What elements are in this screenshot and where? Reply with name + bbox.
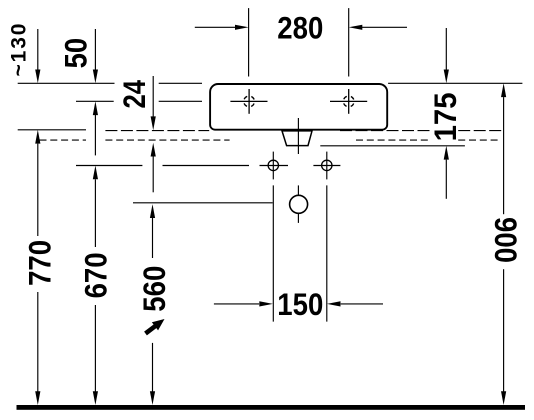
lower hidden edge dashed line, right segment — [356, 139, 431, 141]
arrowhead 150 left — [259, 301, 273, 306]
175 level line (siphon connection) — [320, 145, 465, 147]
left faucet hole crosshair — [230, 89, 267, 114]
dimension 900 line, lower segment — [503, 269, 505, 391]
dimension 150 left tail line — [214, 303, 259, 305]
dimension 670 line, lower segment — [94, 305, 96, 392]
arrowhead 50 down — [93, 70, 98, 84]
vertical center line through drain, upper segment — [297, 118, 299, 154]
arrowhead 560 up — [150, 204, 155, 218]
arrowhead 150 right — [327, 301, 341, 306]
rim level reference line, left segment 2 — [159, 82, 202, 84]
svg-text:24: 24 — [116, 80, 152, 109]
dimension 24 lower extension line — [152, 156, 154, 192]
floor line — [17, 405, 526, 410]
drain circle — [290, 195, 308, 213]
670 level line through left fixing hole — [260, 165, 289, 167]
arrowhead ~130 down — [35, 70, 40, 84]
right faucet hole crosshair — [330, 89, 367, 114]
svg-text:50: 50 — [58, 38, 94, 69]
670 level line through right fixing hole — [313, 165, 340, 167]
arrowhead 900 down — [501, 391, 506, 405]
hidden edge dashed line (basin underside), left segment — [105, 130, 209, 132]
svg-text:280: 280 — [277, 9, 323, 45]
arrowhead 175 down — [444, 70, 449, 84]
dimension 770 line, upper segment — [37, 144, 39, 236]
washbasin body outline — [210, 84, 387, 130]
svg-text:560: 560 — [136, 266, 172, 312]
560 outlet level line — [133, 202, 273, 204]
dimension 560 line, lower segment — [152, 343, 154, 392]
outlet direction arrow (north-east) — [144, 319, 164, 335]
arrowhead 280 right — [349, 25, 363, 30]
left fixing hole — [268, 152, 278, 322]
lower hidden edge dashed line, far right segment — [458, 139, 501, 141]
dimension 670 line, upper segment — [94, 179, 96, 247]
arrowhead 175 up — [444, 146, 449, 160]
rim level reference line, left segment 1 — [18, 82, 115, 84]
dimension 900 line, upper segment — [503, 97, 505, 214]
svg-text:770: 770 — [21, 240, 57, 286]
dimension 175 upper extension line — [445, 28, 447, 70]
arrowhead 770 up — [35, 130, 40, 144]
arrowhead 24 down — [151, 116, 156, 130]
dimension 280 (faucet hole spacing) — [195, 8, 407, 76]
dimension 150 right tail line — [341, 303, 383, 305]
lower hidden edge dashed line, left segment — [40, 139, 87, 141]
hidden edge dashed line (basin underside), far right segment — [458, 130, 501, 132]
dimension 770 line, lower segment — [37, 292, 39, 392]
hidden edge dashed line (basin underside), right segment — [340, 130, 431, 132]
dimension 24 upper extension line — [152, 76, 154, 117]
rim level reference line, right segment — [388, 82, 522, 84]
faucet hole level line, left segment — [76, 100, 114, 102]
svg-text:900: 900 — [488, 217, 524, 263]
arrowhead 670 down — [93, 391, 98, 405]
arrowhead 670 up — [93, 166, 98, 180]
arrowhead 280 left — [235, 25, 249, 30]
arrowhead 24 up — [151, 143, 156, 157]
~130 level solid line — [18, 129, 86, 131]
drain outlet trapezoid — [282, 131, 312, 146]
arrowhead 770 down — [35, 391, 40, 405]
vertical center line through drain circle, lower segment — [297, 185, 299, 223]
svg-text:~130: ~130 — [8, 24, 31, 77]
lower hidden edge dashed line, middle segment — [105, 139, 229, 141]
dimension 50 lower extension line — [94, 115, 96, 156]
right fixing hole — [322, 152, 332, 322]
arrowhead 50 up — [93, 101, 98, 115]
svg-text:175: 175 — [427, 92, 463, 141]
arrowhead 560 down — [150, 391, 155, 405]
670 fixing-hole level line, segment 1 — [76, 165, 142, 167]
dimension ~130 upper extension line — [37, 29, 39, 70]
670 fixing-hole level line, segment 2 — [163, 165, 250, 167]
svg-text:670: 670 — [77, 252, 113, 298]
dimension 175 lower extension line — [445, 160, 447, 199]
dimension 50 upper extension line — [94, 29, 96, 70]
faucet hole level line, right segment — [159, 100, 202, 102]
svg-text:150: 150 — [277, 286, 323, 322]
arrowhead 900 up — [501, 83, 506, 97]
dimension 560 line, upper segment — [152, 218, 154, 258]
